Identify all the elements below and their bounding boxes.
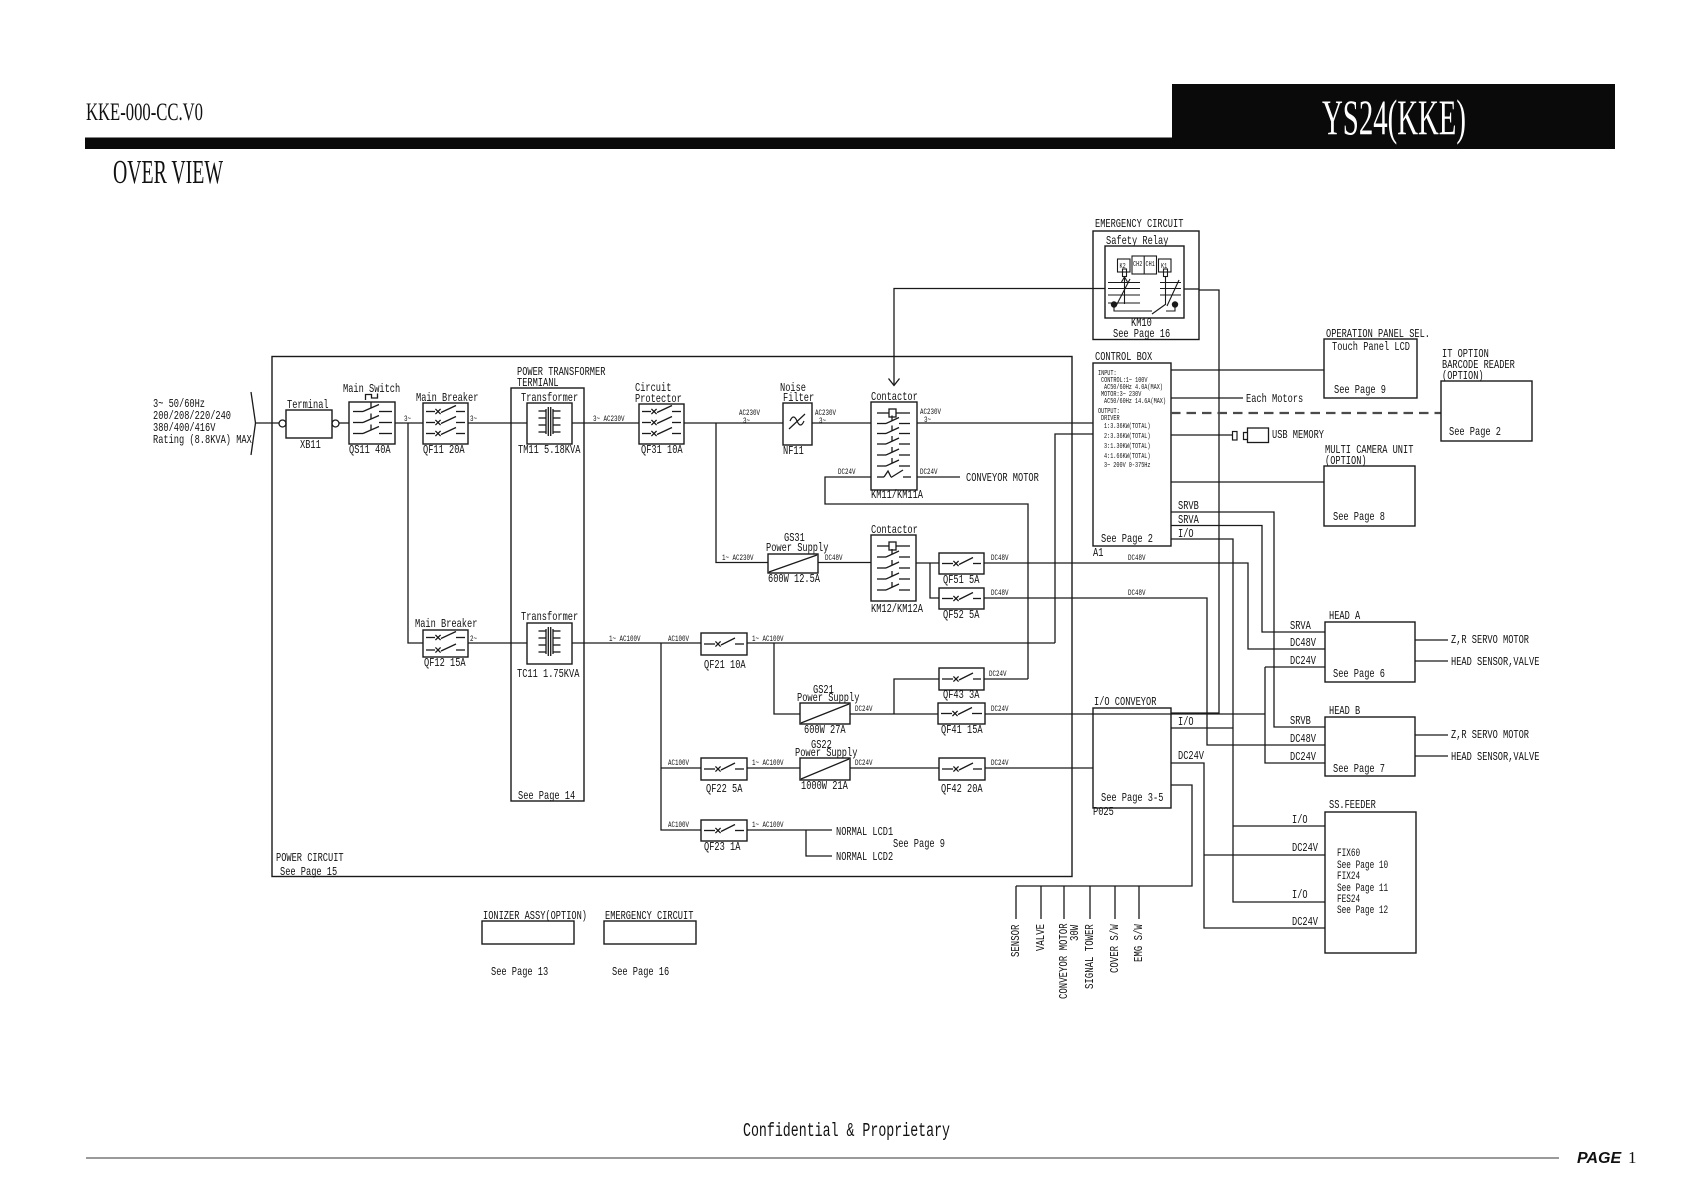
- svg-text:DC48V: DC48V: [1128, 554, 1146, 563]
- wire QF41 DC24V to heads: [985, 713, 1265, 715]
- svg-text:QS11 40A: QS11 40A: [349, 443, 391, 457]
- svg-text:1~ AC100V: 1~ AC100V: [752, 759, 784, 768]
- svg-text:Main Breaker: Main Breaker: [415, 617, 477, 631]
- svg-text:See Page 2: See Page 2: [1101, 532, 1153, 546]
- relay element K2: [1118, 259, 1131, 272]
- emergency circuit bottom box: [604, 921, 696, 944]
- svg-text:See Page 9: See Page 9: [893, 837, 945, 851]
- svg-text:I/O: I/O: [1292, 813, 1308, 827]
- svg-text:TM11 5.18KVA: TM11 5.18KVA: [518, 443, 581, 457]
- svg-text:See Page 9: See Page 9: [1334, 383, 1386, 397]
- breaker QF41 15A: [938, 703, 985, 724]
- wire QF22 to GS22: [747, 767, 800, 769]
- wire NF11 to KM11: [812, 422, 871, 424]
- svg-text:Contactor: Contactor: [871, 523, 918, 537]
- svg-text:DRIVER: DRIVER: [1101, 415, 1120, 423]
- wire TM11 to QF31: [572, 422, 639, 424]
- svg-text:FIX60: FIX60: [1337, 848, 1360, 860]
- breaker QF52 5A: [939, 588, 984, 609]
- power circuit outline box: [272, 357, 1072, 877]
- relay element K1: [1159, 259, 1172, 272]
- ss feeder box: [1325, 812, 1416, 953]
- wire head B servo motor: [1415, 734, 1448, 736]
- power transformer terminal enclosure box: [511, 388, 584, 801]
- svg-text:See Page 3-5: See Page 3-5: [1101, 791, 1163, 805]
- svg-text:Power Supply: Power Supply: [795, 746, 857, 760]
- svg-text:Transformer: Transformer: [521, 610, 578, 624]
- wire QS11 to QF11: [395, 422, 423, 424]
- wire control box each motors: [1171, 397, 1243, 399]
- svg-text:HEAD A: HEAD A: [1329, 609, 1361, 623]
- svg-text:(OPTION): (OPTION): [1442, 369, 1484, 383]
- circuit protector QF31 10A: [639, 404, 684, 444]
- svg-text:DC48V: DC48V: [991, 554, 1009, 563]
- svg-text:K1: K1: [1161, 263, 1167, 271]
- wire terminal to QS11: [339, 422, 349, 424]
- svg-text:See Page 15: See Page 15: [280, 865, 337, 879]
- svg-text:P025: P025: [1093, 805, 1114, 819]
- svg-text:3~: 3~: [404, 415, 411, 424]
- svg-text:30W: 30W: [1068, 924, 1082, 941]
- wire QF11 to TM11: [468, 422, 527, 424]
- svg-text:DC24V: DC24V: [855, 759, 873, 768]
- svg-text:PAGE: PAGE: [1577, 1150, 1622, 1167]
- svg-text:1000W 21A: 1000W 21A: [801, 779, 848, 793]
- svg-text:See Page 16: See Page 16: [1113, 327, 1170, 341]
- svg-text:3~: 3~: [819, 417, 826, 426]
- svg-text:HEAD SENSOR,VALVE: HEAD SENSOR,VALVE: [1451, 655, 1539, 669]
- svg-text:EMERGENCY CIRCUIT: EMERGENCY CIRCUIT: [1095, 217, 1183, 231]
- dashed wire control box to barcode reader: [1171, 412, 1441, 414]
- svg-text:SRVB: SRVB: [1290, 714, 1311, 728]
- wire GS22 to QF42: [850, 767, 939, 769]
- svg-text:DC24V: DC24V: [855, 705, 873, 714]
- svg-text:Z,R SERVO MOTOR: Z,R SERVO MOTOR: [1451, 633, 1529, 647]
- svg-text:See Page 16: See Page 16: [612, 965, 669, 979]
- footer rule line: [86, 1157, 1559, 1159]
- control box A1: [1093, 363, 1171, 546]
- io conveyor box P025: [1093, 708, 1171, 808]
- power supply GS22: [800, 758, 850, 780]
- breaker QF21 10A: [701, 633, 747, 655]
- svg-text:DC48V: DC48V: [1290, 636, 1317, 650]
- svg-text:QF42 20A: QF42 20A: [941, 782, 983, 796]
- svg-text:1~ AC100V: 1~ AC100V: [752, 821, 784, 830]
- svg-text:NF11: NF11: [783, 444, 804, 458]
- relay terminal marks: [1123, 269, 1127, 277]
- svg-text:3~ 200V 0-375Hz: 3~ 200V 0-375Hz: [1104, 462, 1151, 470]
- svg-text:I/O: I/O: [1178, 715, 1194, 729]
- svg-text:DC48V: DC48V: [991, 589, 1009, 598]
- svg-text:Each Motors: Each Motors: [1246, 392, 1303, 406]
- svg-text:DC24V: DC24V: [991, 759, 1009, 768]
- svg-text:Power Supply: Power Supply: [766, 541, 828, 555]
- svg-text:TERMIANL: TERMIANL: [517, 376, 559, 390]
- breaker QF51 5A: [939, 553, 984, 574]
- head B box: [1325, 717, 1415, 776]
- svg-text:DC24V: DC24V: [1292, 915, 1319, 929]
- svg-text:QF51 5A: QF51 5A: [943, 573, 980, 587]
- svg-text:QF31 10A: QF31 10A: [641, 443, 683, 457]
- supply break symbol: [251, 392, 256, 423]
- wire head B sensor valve: [1415, 755, 1448, 757]
- svg-text:CH1: CH1: [1146, 261, 1155, 269]
- ionizer assy option box: [482, 921, 574, 944]
- header thick rule bar: [85, 138, 1615, 150]
- relay bottom links: [1114, 305, 1152, 312]
- svg-text:COVER S/W: COVER S/W: [1108, 924, 1122, 973]
- svg-text:3~ AC230V: 3~ AC230V: [593, 415, 625, 424]
- wire control box to touch panel: [1171, 369, 1324, 371]
- svg-text:AC100V: AC100V: [668, 759, 689, 768]
- contactor KM11/KM11A: [871, 402, 917, 490]
- usb memory connector: [1233, 432, 1238, 441]
- wire conveyor to bottom loads: [1016, 785, 1192, 886]
- svg-text:See Page 7: See Page 7: [1333, 762, 1385, 776]
- svg-text:See Page 8: See Page 8: [1333, 510, 1385, 524]
- svg-text:HEAD SENSOR,VALVE: HEAD SENSOR,VALVE: [1451, 750, 1539, 764]
- svg-text:DC24V: DC24V: [1292, 841, 1319, 855]
- svg-text:CONVEYOR MOTOR: CONVEYOR MOTOR: [966, 471, 1039, 485]
- svg-text:AC100V: AC100V: [668, 821, 689, 830]
- multi camera unit box: [1324, 466, 1415, 526]
- breaker QF22 5A: [701, 758, 747, 780]
- svg-text:QF52 5A: QF52 5A: [943, 608, 980, 622]
- wire KM11 DC24V to conveyor motor: [917, 476, 960, 478]
- wire QF21 to control box 100V input: [747, 642, 1055, 644]
- svg-text:I/O CONVEYOR: I/O CONVEYOR: [1094, 695, 1156, 709]
- power supply GS21: [800, 703, 850, 724]
- wire supply to terminal: [256, 422, 280, 424]
- svg-text:TC11 1.75KVA: TC11 1.75KVA: [517, 667, 580, 681]
- svg-text:CH2: CH2: [1133, 261, 1142, 269]
- svg-text:QF41 15A: QF41 15A: [941, 723, 983, 737]
- svg-text:Confidential & Proprietary: Confidential & Proprietary: [743, 1120, 950, 1142]
- head A box: [1325, 622, 1415, 682]
- svg-text:Transformer: Transformer: [521, 391, 578, 405]
- svg-text:QF11 20A: QF11 20A: [423, 443, 465, 457]
- svg-text:EMERGENCY CIRCUIT: EMERGENCY CIRCUIT: [605, 909, 693, 923]
- svg-text:AC50/60Hz 14.6A(MAX): AC50/60Hz 14.6A(MAX): [1104, 398, 1166, 406]
- svg-text:XB11: XB11: [300, 438, 321, 452]
- svg-text:Rating (8.8KVA) MAX: Rating (8.8KVA) MAX: [153, 433, 252, 447]
- svg-text:See Page 14: See Page 14: [518, 789, 575, 803]
- main breaker QF11 20A: [423, 403, 468, 444]
- svg-text:600W 12.5A: 600W 12.5A: [768, 572, 821, 586]
- wire conveyor DC24V to feeder: [1171, 763, 1325, 928]
- svg-text:QF43 3A: QF43 3A: [943, 688, 980, 702]
- relay contact rows: [1108, 282, 1140, 284]
- wire safety relay to IO conveyor: [1184, 288, 1199, 290]
- wire QF43 DC24V to KM11 coil: [984, 678, 1028, 680]
- wire GS21 to QF41 and QF43: [850, 713, 938, 715]
- wire QF31 to NF11: [684, 422, 783, 424]
- svg-text:Filter: Filter: [783, 391, 814, 405]
- terminal XB11: [286, 410, 332, 438]
- svg-text:CONTROL BOX: CONTROL BOX: [1095, 350, 1152, 364]
- svg-text:IONIZER ASSY(OPTION): IONIZER ASSY(OPTION): [483, 909, 587, 923]
- transformer TC11 1.75KVA: [527, 623, 572, 664]
- wire AC230V tap to GS31: [716, 423, 768, 563]
- svg-text:1~ AC100V: 1~ AC100V: [609, 635, 641, 644]
- svg-text:KM12/KM12A: KM12/KM12A: [871, 602, 924, 616]
- svg-text:SRVB: SRVB: [1178, 499, 1199, 513]
- svg-text:See Page 2: See Page 2: [1449, 425, 1501, 439]
- relay nodes: [1111, 301, 1117, 307]
- svg-text:FIX24: FIX24: [1337, 871, 1360, 883]
- power supply GS31: [768, 554, 818, 573]
- wire QF23 to LCD loads: [747, 829, 832, 831]
- svg-text:SENSOR: SENSOR: [1009, 925, 1023, 957]
- wire KM11 to control box AC230V: [917, 422, 1093, 424]
- wire QF21 tap to GS21: [774, 643, 800, 714]
- contactor KM12/KM12A: [871, 535, 916, 601]
- wire head A servo motor: [1415, 639, 1448, 641]
- svg-text:VALVE: VALVE: [1034, 924, 1048, 951]
- svg-text:Main Breaker: Main Breaker: [416, 391, 478, 405]
- svg-text:1: 1: [1628, 1148, 1637, 1167]
- wire AC100V bus down: [661, 643, 701, 830]
- svg-text:Safety Relay: Safety Relay: [1106, 234, 1168, 248]
- svg-text:AC100V: AC100V: [668, 635, 689, 644]
- svg-text:3~: 3~: [743, 417, 750, 426]
- svg-text:POWER CIRCUIT: POWER CIRCUIT: [276, 851, 344, 865]
- header title block YS24(KKE): [1172, 84, 1615, 149]
- svg-text:See Page 12: See Page 12: [1337, 905, 1388, 917]
- svg-text:NORMAL LCD1: NORMAL LCD1: [836, 825, 893, 839]
- svg-text:Terminal: Terminal: [287, 398, 329, 412]
- svg-text:KKE-000-CC.V0: KKE-000-CC.V0: [86, 99, 203, 126]
- svg-text:SIGNAL TOWER: SIGNAL TOWER: [1083, 924, 1097, 989]
- wire QF51 DC48V to HEAD A: [984, 563, 1325, 649]
- svg-text:DC24V: DC24V: [1290, 750, 1317, 764]
- breaker QF23 1A: [701, 820, 747, 841]
- relay element CH2 CH1: [1132, 256, 1157, 274]
- svg-text:DC24V: DC24V: [1178, 749, 1205, 763]
- svg-text:DC24V: DC24V: [838, 468, 856, 477]
- svg-text:DC48V: DC48V: [825, 554, 843, 563]
- svg-text:DC48V: DC48V: [1290, 732, 1317, 746]
- svg-text:Touch Panel LCD: Touch Panel LCD: [1332, 340, 1410, 354]
- svg-text:QF12 15A: QF12 15A: [424, 656, 466, 670]
- wire control box to camera: [1171, 481, 1324, 483]
- svg-text:QF21 10A: QF21 10A: [704, 658, 746, 672]
- relay arrow: [1122, 277, 1128, 282]
- safety relay inner box: [1105, 246, 1184, 318]
- svg-text:DC24V: DC24V: [920, 468, 938, 477]
- svg-text:1~ AC230V: 1~ AC230V: [722, 554, 754, 563]
- emergency circuit box: [1093, 231, 1199, 340]
- svg-text:DC48V: DC48V: [1128, 589, 1146, 598]
- wire bus QS11 down to QF12: [408, 423, 423, 643]
- svg-text:4:1.66KW(TOTAL): 4:1.66KW(TOTAL): [1104, 453, 1151, 461]
- svg-text:SS.FEEDER: SS.FEEDER: [1329, 798, 1376, 812]
- svg-text:Protector: Protector: [635, 392, 682, 406]
- svg-text:DC24V: DC24V: [989, 670, 1007, 679]
- svg-text:600W 27A: 600W 27A: [804, 723, 846, 737]
- wire QF12 to TC11: [468, 642, 527, 644]
- svg-text:See Page 13: See Page 13: [491, 965, 548, 979]
- svg-text:1:3.36KW(TOTAL): 1:3.36KW(TOTAL): [1104, 423, 1151, 431]
- main breaker QF12 15A: [423, 630, 468, 657]
- svg-text:KM11/KM11A: KM11/KM11A: [871, 488, 924, 502]
- main switch QS11 40A: [349, 402, 395, 444]
- svg-text:Main Switch: Main Switch: [343, 382, 400, 396]
- svg-text:USB MEMORY: USB MEMORY: [1272, 428, 1324, 442]
- svg-text:1~ AC100V: 1~ AC100V: [752, 635, 784, 644]
- svg-text:YS24(KKE): YS24(KKE): [1322, 89, 1466, 145]
- transformer TM11 5.18KVA: [527, 403, 572, 444]
- svg-text:3:1.30KW(TOTAL): 3:1.30KW(TOTAL): [1104, 443, 1151, 451]
- svg-text:OVER VIEW: OVER VIEW: [113, 154, 224, 191]
- wire QF42 DC24V to conveyor: [985, 767, 1093, 769]
- wire DC24V vertical to HEAD A and HEAD B: [1265, 667, 1325, 763]
- svg-text:SRVA: SRVA: [1290, 619, 1311, 633]
- svg-text:Z,R SERVO MOTOR: Z,R SERVO MOTOR: [1451, 728, 1529, 742]
- svg-text:A1: A1: [1093, 546, 1103, 560]
- svg-text:EMG S/W: EMG S/W: [1132, 924, 1146, 962]
- breaker QF42 20A: [939, 758, 985, 780]
- svg-text:(OPTION): (OPTION): [1325, 454, 1367, 468]
- wire KM12 to QF51 and QF52: [916, 562, 939, 564]
- svg-text:QF23 1A: QF23 1A: [704, 840, 741, 854]
- operation panel select box: [1324, 339, 1417, 398]
- wire QF52 DC48V to HEAD B: [984, 598, 1325, 745]
- breaker QF43 3A: [939, 668, 984, 690]
- wire head A sensor valve: [1415, 660, 1448, 662]
- wire TC11 to QF21 and control box: [572, 642, 701, 644]
- svg-text:DC24V: DC24V: [991, 705, 1009, 714]
- svg-text:HEAD B: HEAD B: [1329, 704, 1360, 718]
- svg-text:See Page 6: See Page 6: [1333, 667, 1385, 681]
- barcode reader option box: [1441, 381, 1532, 441]
- svg-text:I/O: I/O: [1292, 888, 1308, 902]
- svg-text:2:3.36KW(TOTAL): 2:3.36KW(TOTAL): [1104, 433, 1151, 441]
- svg-text:QF22 5A: QF22 5A: [706, 782, 743, 796]
- svg-text:NORMAL LCD2: NORMAL LCD2: [836, 850, 893, 864]
- svg-text:Contactor: Contactor: [871, 390, 918, 404]
- wire safety relay to KM11 arrow: [894, 289, 1105, 386]
- wire GS31 to KM12: [818, 562, 871, 564]
- svg-text:3~: 3~: [470, 415, 477, 424]
- svg-text:OPERATION PANEL SEL.: OPERATION PANEL SEL.: [1326, 327, 1430, 341]
- noise filter NF11: [783, 403, 812, 445]
- svg-text:Power Supply: Power Supply: [797, 691, 859, 705]
- svg-text:DC24V: DC24V: [1290, 654, 1317, 668]
- wire control box to usb memory: [1171, 434, 1233, 436]
